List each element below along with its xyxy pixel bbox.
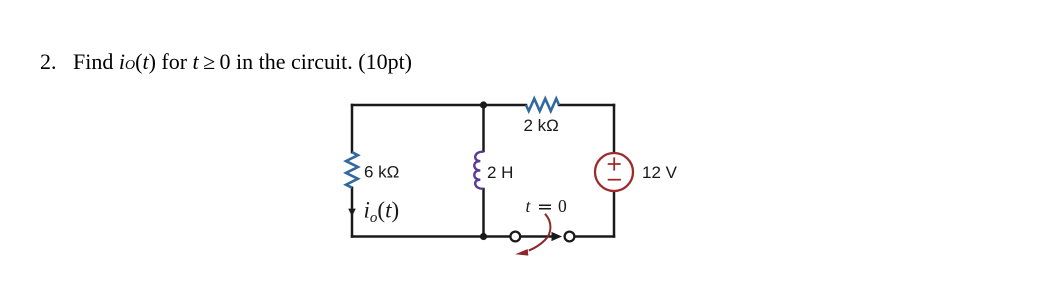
svg-text:2 H: 2 H [487, 163, 513, 182]
switch terminal circle left [510, 232, 520, 242]
svg-text:t: t [526, 196, 532, 216]
wire top-left segment [352, 104, 526, 107]
switch terminal circle right [565, 232, 575, 242]
svg-text:0: 0 [558, 196, 567, 216]
switch action curved arrow (dark red) [529, 214, 551, 251]
wire right branch upper [613, 105, 616, 153]
switch action arrowhead [515, 249, 528, 256]
resistor R 6 kOhm (left branch zigzag) [346, 152, 358, 188]
switch blade arrowhead [552, 232, 563, 241]
wire top-right segment after 2k resistor [559, 104, 614, 107]
switch blade wire [520, 235, 553, 238]
minus sign of source [608, 179, 621, 181]
current arrow io(t) on left branch [348, 209, 356, 217]
wire right branch lower [613, 191, 616, 237]
problem title text [40, 51, 412, 73]
resistor R 2 kOhm (top zigzag) [526, 99, 559, 111]
voltage source V1 12V circle [595, 153, 633, 191]
node junction dot top [480, 101, 487, 108]
wire bottom-left segment [352, 235, 511, 238]
wire middle branch lower [482, 189, 485, 237]
plus sign of source [608, 157, 621, 170]
wire bottom-right segment [574, 235, 614, 238]
wire left branch lower [351, 188, 354, 237]
svg-text:12 V: 12 V [642, 163, 678, 182]
svg-text:6 kΩ: 6 kΩ [364, 162, 399, 181]
node junction dot bottom [480, 233, 487, 240]
wire left branch upper [351, 105, 354, 152]
svg-text:2 kΩ: 2 kΩ [524, 116, 559, 135]
inductor L 2 H (middle branch coil) [474, 152, 483, 189]
wire middle branch upper [482, 105, 485, 151]
svg-text:io(t): io(t) [364, 198, 400, 227]
